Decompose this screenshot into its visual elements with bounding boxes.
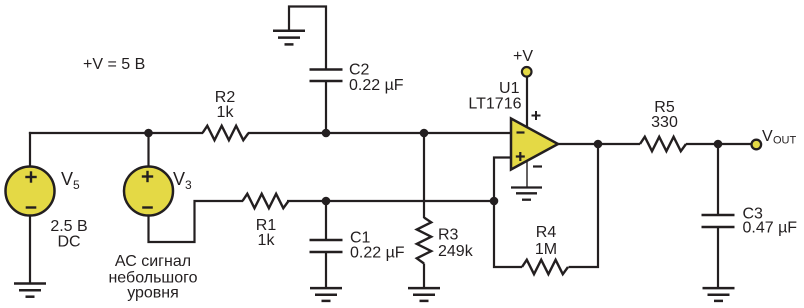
junction: C2 on main net (322, 129, 331, 138)
wire: V3 bottom lead to R1 (149, 201, 244, 242)
resistor R2 (203, 126, 249, 140)
junction: R3 on main net (420, 129, 429, 138)
capacitor C3 (702, 215, 735, 227)
V3 minus mark (142, 206, 153, 208)
svg-text:0.22 µF: 0.22 µF (349, 77, 404, 94)
op-amp negative supply mark (533, 165, 542, 167)
capacitor C2 (310, 70, 343, 82)
junction: C1/R1 node (322, 197, 331, 206)
op-amp non-inverting input mark (516, 152, 525, 161)
wire: C2 top lead and top-left ground run (289, 7, 326, 70)
wire: V3 top lead (147, 132, 149, 167)
svg-text:0.22 µF: 0.22 µF (350, 245, 405, 262)
svg-text:АС сигнал: АС сигнал (115, 253, 191, 270)
svg-text:R4: R4 (536, 224, 557, 241)
svg-text:V: V (762, 128, 773, 145)
wire: +V supply lead into op-amp (526, 76, 528, 127)
op-amp positive supply mark (532, 111, 541, 120)
wire: C3 top lead (717, 144, 719, 215)
resistor R4 (522, 260, 568, 274)
wire: R4 feedback loop left and bottom (494, 201, 522, 267)
svg-text:U1: U1 (499, 80, 520, 97)
resistor R3 (vertical) (417, 218, 431, 264)
wire: V5 top lead (29, 132, 31, 167)
wire: R3 bottom lead to ground (423, 264, 425, 289)
capacitor C1 (310, 240, 343, 252)
resistor R1 (243, 194, 289, 208)
junction: C3 on output net (714, 140, 723, 149)
svg-text:1M: 1M (535, 241, 557, 258)
wire: main top net from V5 to R2 (29, 132, 203, 134)
ground (under C1) (310, 288, 342, 301)
wire: R1 right to non-inverting net (287, 200, 494, 202)
wire: R5 right to VOUT terminal (686, 143, 751, 145)
wire: op-amp ground stub (526, 161, 528, 188)
ground (under op-amp) (511, 188, 542, 200)
ground (under C3) (703, 288, 735, 301)
wire: C1 bottom lead to ground (325, 252, 327, 288)
svg-text:+V = 5 В: +V = 5 В (83, 56, 145, 73)
junction: output / R4 riser (594, 140, 603, 149)
svg-text:0.47 µF: 0.47 µF (743, 220, 798, 237)
svg-text:+V: +V (513, 48, 533, 65)
wire: op-amp output to VOUT (558, 143, 640, 145)
ground (top-left, C2 return) (273, 31, 305, 45)
svg-text:249k: 249k (438, 243, 474, 260)
svg-text:1k: 1k (217, 104, 235, 121)
terminal VOUT (752, 140, 762, 150)
wire: C3 bottom lead to ground (717, 227, 719, 288)
ground (under R3) (408, 288, 440, 301)
svg-text:уровня: уровня (127, 284, 179, 301)
svg-text:330: 330 (651, 114, 678, 131)
resistor R5 (640, 137, 686, 151)
voltage source V5 (6, 167, 55, 216)
wire: R3 top lead (423, 133, 425, 218)
wire: C2 bottom lead (325, 81, 327, 133)
wire: riser to non-inverting input (494, 158, 511, 202)
wire: V5 bottom lead to ground (29, 215, 31, 283)
V5 plus mark (25, 171, 36, 182)
wire: C1 top lead (325, 201, 327, 240)
junction: V3 tap on main net (144, 129, 153, 138)
op-amp inverting input mark (517, 131, 525, 133)
svg-text:1k: 1k (258, 232, 276, 249)
svg-text:R3: R3 (438, 227, 459, 244)
wire: R2 right to inverting input (248, 132, 511, 134)
terminal +V (522, 67, 532, 77)
voltage source V3 (124, 167, 173, 216)
svg-text:OUT: OUT (773, 135, 797, 147)
V5 minus mark (26, 206, 37, 208)
V3 plus mark (142, 171, 153, 182)
op-amp U1 LT1716 (511, 119, 558, 170)
svg-text:LT1716: LT1716 (468, 96, 521, 113)
junction: non-inverting net / R4 (490, 197, 499, 206)
wire: R4 feedback loop right and riser to output (569, 144, 599, 267)
svg-text:DC: DC (57, 233, 80, 250)
ground (under V5) (14, 284, 46, 297)
